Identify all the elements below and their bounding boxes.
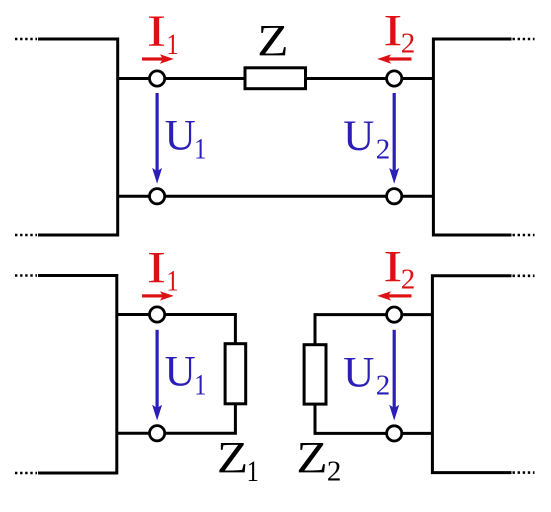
node: port1 bottom terminal (bottom circuit)	[150, 426, 165, 441]
svg-text:1: 1	[247, 455, 259, 488]
wire: right shunt loop port2-node-Z2-node-port2	[315, 315, 432, 434]
left port (top circuit)	[38, 39, 118, 235]
current arrow I1 (top circuit)	[142, 54, 174, 63]
svg-text:2: 2	[376, 370, 391, 402]
wire: bottom rail port1'-node1'-node2'-port2'	[118, 195, 434, 198]
right port (top circuit)	[433, 39, 511, 235]
svg-text:I: I	[383, 242, 402, 291]
impedance Z2 (shunt)	[304, 345, 326, 404]
left port dotted leads (top circuit)	[15, 39, 37, 235]
current arrow I2 (top circuit)	[377, 54, 411, 63]
svg-text:U: U	[165, 112, 196, 159]
svg-text:1: 1	[166, 28, 178, 61]
left port (bottom circuit)	[38, 276, 117, 474]
svg-text:Z: Z	[296, 433, 327, 482]
svg-text:2: 2	[401, 27, 416, 59]
node: port1 bottom terminal	[150, 189, 165, 204]
current arrow I2 (bottom circuit)	[377, 291, 411, 300]
svg-text:2: 2	[376, 133, 391, 165]
svg-text:Z: Z	[217, 433, 248, 482]
voltage arrow U2 (top circuit)	[389, 93, 399, 184]
node: port2 bottom terminal (bottom circuit)	[387, 426, 402, 441]
svg-text:1: 1	[166, 264, 178, 297]
svg-text:Z: Z	[257, 16, 288, 65]
right port dotted leads (top circuit)	[513, 39, 535, 235]
svg-text:2: 2	[327, 455, 342, 487]
svg-text:1: 1	[194, 132, 206, 165]
svg-text:I: I	[147, 243, 166, 292]
node: port1 top terminal (bottom circuit)	[150, 307, 165, 322]
node: port2 top terminal (bottom circuit)	[387, 307, 402, 322]
right port dotted leads (bottom circuit)	[513, 276, 535, 473]
svg-text:1: 1	[194, 368, 206, 401]
node: port2 top terminal	[387, 71, 402, 86]
svg-text:U: U	[165, 349, 196, 396]
svg-text:U: U	[343, 113, 374, 160]
right port (bottom circuit)	[432, 276, 511, 473]
svg-text:I: I	[383, 6, 402, 55]
node: port1 top terminal	[150, 71, 165, 86]
wire: top rail port1-node1-Z-node2-port2	[118, 77, 434, 80]
left port dotted leads (bottom circuit)	[15, 276, 37, 474]
svg-text:2: 2	[401, 264, 416, 296]
voltage arrow U1 (top circuit)	[152, 93, 162, 184]
voltage arrow U2 (bottom circuit)	[389, 330, 399, 421]
voltage arrow U1 (bottom circuit)	[152, 330, 162, 421]
svg-text:U: U	[343, 350, 374, 397]
current arrow I1 (bottom circuit)	[142, 291, 174, 300]
node: port2 bottom terminal	[387, 189, 402, 204]
impedance Z1 (shunt)	[225, 344, 246, 404]
wire: left shunt loop port1-node-Z1-node-port1	[117, 315, 236, 434]
svg-text:I: I	[147, 7, 166, 56]
impedance Z (series)	[245, 68, 306, 89]
